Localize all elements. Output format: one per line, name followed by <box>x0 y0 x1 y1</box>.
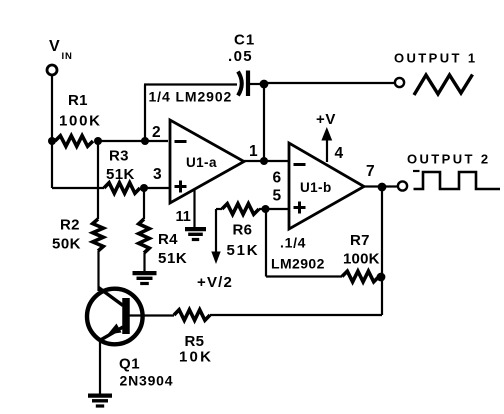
junction <box>140 184 148 192</box>
op-amp U1-a <box>170 120 244 203</box>
wire <box>143 253 145 272</box>
svg-text:R3: R3 <box>109 148 129 165</box>
svg-text:R4: R4 <box>158 231 178 248</box>
svg-text:1/4 LM2902: 1/4 LM2902 <box>149 89 233 105</box>
wire <box>250 83 264 85</box>
resistor R5 <box>174 310 210 321</box>
ground <box>185 227 206 231</box>
ground <box>133 271 157 275</box>
svg-text:51K: 51K <box>227 242 260 259</box>
wire <box>381 187 383 315</box>
svg-text:1: 1 <box>249 143 258 160</box>
wire <box>264 82 394 84</box>
svg-text:Q1: Q1 <box>119 356 140 373</box>
junction <box>378 183 387 192</box>
svg-text:10K: 10K <box>179 349 213 366</box>
wire <box>99 341 101 395</box>
svg-text:R1: R1 <box>68 92 88 109</box>
junction <box>48 137 56 145</box>
waveform square <box>414 172 501 189</box>
svg-text:51K: 51K <box>158 250 187 267</box>
svg-text:V: V <box>49 38 60 55</box>
wire <box>265 209 267 277</box>
wire <box>364 185 398 187</box>
wire <box>210 314 382 316</box>
svg-text:6: 6 <box>273 170 282 187</box>
wire <box>144 85 146 142</box>
svg-text:R6: R6 <box>233 222 253 239</box>
svg-text:.1/4: .1/4 <box>280 235 306 251</box>
wire <box>144 187 170 189</box>
svg-text:R7: R7 <box>350 232 370 249</box>
waveform triangle <box>414 75 473 96</box>
wire <box>52 187 104 189</box>
node OUTPUT1 terminal <box>395 78 404 87</box>
svg-text:3: 3 <box>153 166 162 183</box>
svg-text:11: 11 <box>176 209 191 225</box>
junction <box>262 205 270 213</box>
wire <box>244 160 289 162</box>
svg-text:5: 5 <box>273 188 282 205</box>
svg-text:R5: R5 <box>185 333 205 350</box>
svg-text:+V: +V <box>316 111 336 128</box>
wire <box>51 75 53 142</box>
junction <box>94 137 102 145</box>
ground <box>88 394 112 398</box>
resistor R1 <box>55 136 93 147</box>
resistor R4 <box>143 188 145 219</box>
wire <box>266 275 342 277</box>
resistor R2 <box>97 141 99 219</box>
svg-text:51K: 51K <box>106 166 135 183</box>
svg-text:100K: 100K <box>343 251 380 268</box>
svg-text:.05: .05 <box>228 48 253 65</box>
svg-text:100K: 100K <box>59 113 102 130</box>
svg-text:LM2902: LM2902 <box>271 256 325 272</box>
resistor R6 <box>216 208 222 210</box>
svg-text:50K: 50K <box>52 236 81 253</box>
wire <box>97 251 99 291</box>
wire <box>129 314 174 316</box>
svg-text:IN: IN <box>62 51 73 62</box>
wire <box>259 208 289 210</box>
junction <box>260 157 268 165</box>
wire <box>263 84 265 161</box>
resistor R7 <box>342 271 379 282</box>
svg-text:4: 4 <box>335 145 344 162</box>
wire <box>51 141 53 188</box>
svg-text:+V/2: +V/2 <box>197 274 233 291</box>
node Vin terminal <box>47 65 57 75</box>
svg-text:C1: C1 <box>234 32 255 49</box>
wire <box>144 83 237 85</box>
svg-text:U1-a: U1-a <box>186 155 217 170</box>
svg-text:2N3904: 2N3904 <box>120 373 174 389</box>
transistor Q1 <box>87 289 143 345</box>
svg-text:R2: R2 <box>60 217 80 234</box>
svg-text:U1-b: U1-b <box>300 180 332 195</box>
svg-text:OUTPUT 1: OUTPUT 1 <box>394 51 477 66</box>
wire <box>193 189 195 228</box>
junction <box>260 80 269 89</box>
junction <box>141 137 149 145</box>
svg-text:OUTPUT 2: OUTPUT 2 <box>407 152 490 167</box>
svg-text:7: 7 <box>366 163 375 180</box>
power +V/2 arrow <box>215 209 217 253</box>
node OUTPUT2 terminal <box>398 181 407 190</box>
op-amp U1-b <box>289 143 364 229</box>
junction <box>377 273 386 282</box>
wire <box>98 140 168 142</box>
svg-text:2: 2 <box>152 124 161 141</box>
resistor R3 <box>104 183 140 194</box>
